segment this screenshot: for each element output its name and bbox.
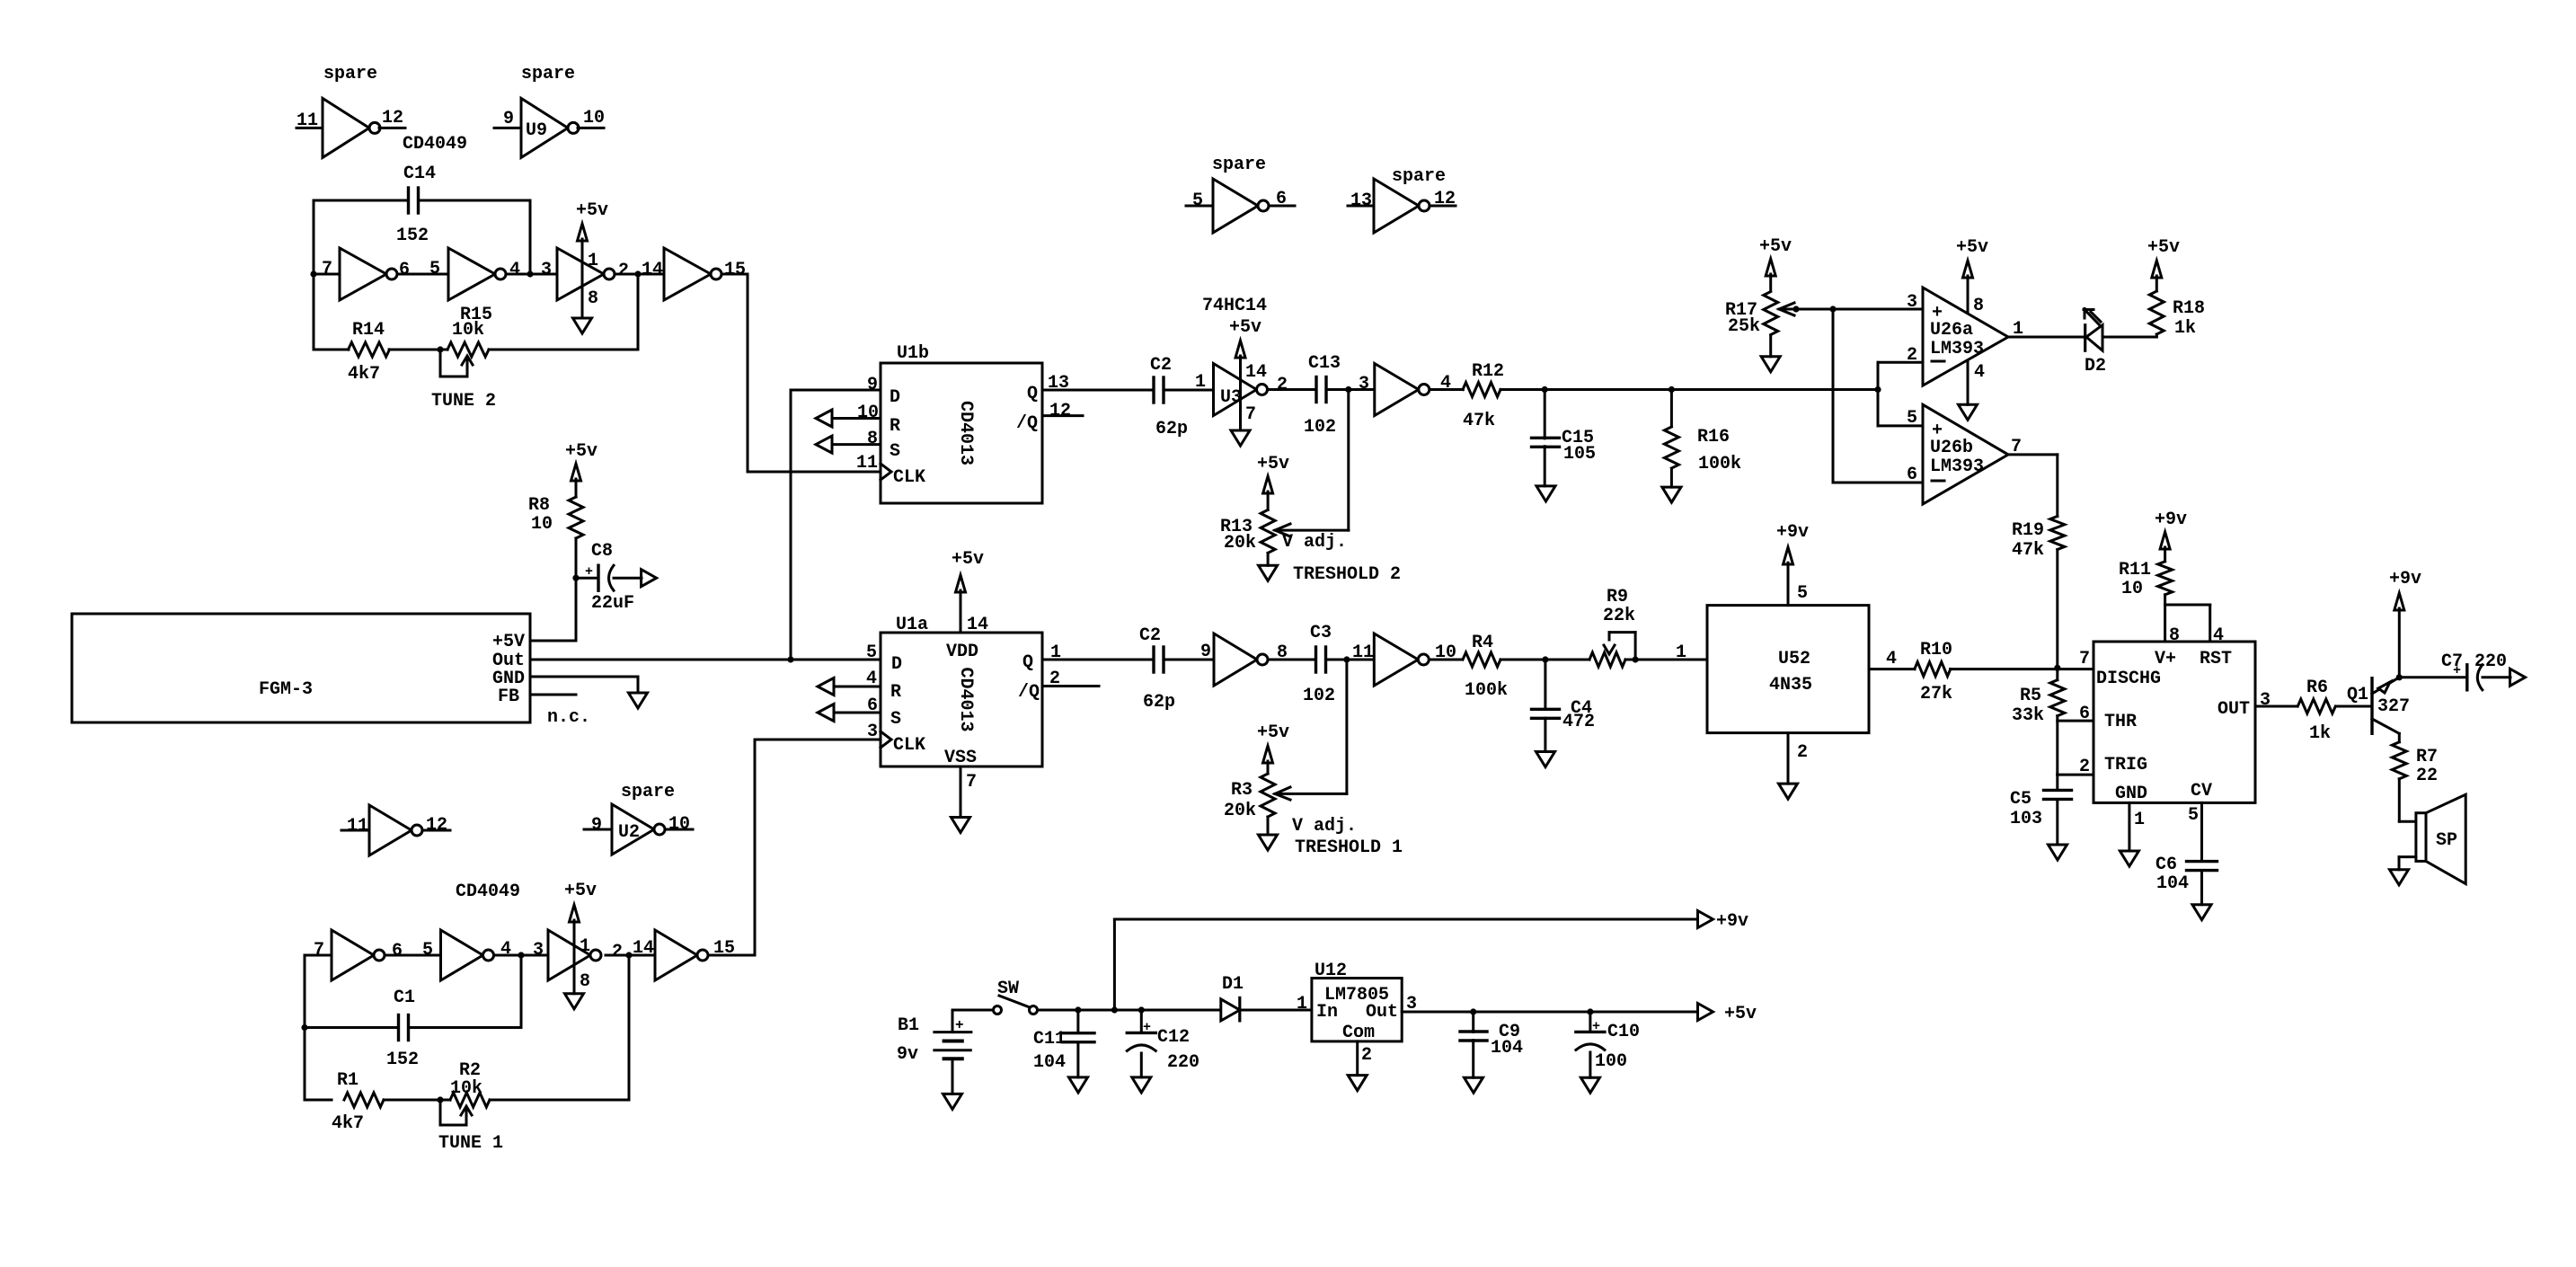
svg-text:+9v: +9v — [1716, 911, 1748, 932]
svg-text:22uF: 22uF — [591, 593, 634, 614]
capacitor C2 62p (channel 1) — [1139, 625, 1175, 713]
svg-text:R6: R6 — [2306, 678, 2328, 698]
wire: C2 to inverter pin 9 — [1164, 642, 1214, 662]
svg-text:1: 1 — [588, 251, 598, 271]
inverter 74HC14 pins 11-10 — [1374, 633, 1456, 686]
wire: U26b output to R19 — [2008, 455, 2058, 517]
svg-text:47k: 47k — [2012, 540, 2044, 561]
clock wedge U1a CLK pin 3 — [867, 722, 891, 748]
ground below C12 — [1132, 1077, 1151, 1093]
capacitor C1 152 — [305, 955, 521, 1070]
svg-text:RST: RST — [2200, 649, 2232, 669]
svg-text:CD4013: CD4013 — [955, 401, 976, 465]
svg-text:R: R — [890, 682, 901, 703]
resistor R19 47k — [2012, 517, 2065, 562]
inverter CD4049 pins 3-2 with power pins 1,8 — [557, 248, 615, 309]
transistor Q1 327 — [2347, 678, 2410, 734]
svg-text:GND: GND — [2115, 784, 2147, 804]
svg-text:10: 10 — [668, 814, 690, 835]
svg-text:R7: R7 — [2416, 747, 2438, 767]
svg-text:47k: 47k — [1463, 411, 1495, 431]
+5v power arrow above U26a — [1956, 237, 1988, 313]
+9v power arrow above U52 pin 5 — [1776, 522, 1809, 606]
svg-text:13: 13 — [1048, 373, 1069, 394]
potentiometer R13 20k TRESHOLD 2 — [1220, 454, 1290, 565]
wire: C3 to inverter pin 11 junction — [1327, 642, 1374, 663]
svg-text:8: 8 — [2169, 625, 2180, 646]
svg-text:SP: SP — [2436, 830, 2457, 851]
svg-text:C3: C3 — [1310, 623, 1332, 643]
svg-text:11: 11 — [856, 453, 878, 474]
label CD4049 (top) — [403, 134, 467, 155]
wire: R7 to speaker — [2399, 820, 2416, 823]
svg-text:2: 2 — [2079, 757, 2090, 777]
svg-text:9: 9 — [867, 375, 878, 395]
svg-text:VDD: VDD — [946, 642, 978, 662]
wire: junction to R13 wiper — [1277, 390, 1349, 531]
wire: pin6 line from wiper node — [1833, 309, 1923, 485]
+9v power arrow above Q1 — [2389, 569, 2421, 680]
svg-text:3: 3 — [533, 940, 544, 961]
svg-text:B1: B1 — [898, 1015, 919, 1036]
svg-text:TUNE 2: TUNE 2 — [431, 391, 496, 412]
svg-text:+: + — [1592, 1019, 1600, 1034]
inverter CD4049 pins 5-4 (bottom) — [422, 930, 511, 980]
ground below C11 — [1069, 1077, 1088, 1093]
wire: U12 Out +5v rail — [1402, 994, 1697, 1015]
resistor R5 33k — [2012, 668, 2065, 726]
ground below C9 — [1465, 1077, 1483, 1093]
svg-text:/Q: /Q — [1018, 682, 1040, 703]
svg-text:TUNE 1: TUNE 1 — [438, 1133, 503, 1154]
svg-text:220: 220 — [1167, 1052, 1199, 1073]
svg-text:1: 1 — [580, 936, 590, 957]
ground below U1a VSS pin 7 — [952, 766, 978, 833]
svg-text:100k: 100k — [1465, 680, 1508, 701]
resistor R8 10 — [528, 441, 598, 578]
svg-text:10: 10 — [857, 403, 879, 423]
svg-text:+5v: +5v — [1229, 317, 1261, 338]
clock wedge U1b CLK pin 11 — [856, 453, 891, 480]
svg-text:+: + — [1143, 1020, 1151, 1035]
svg-text:10: 10 — [2121, 579, 2143, 599]
svg-text:12: 12 — [1049, 401, 1071, 421]
potentiometer R15 10k TUNE 2 — [440, 305, 492, 377]
svg-text:7: 7 — [1245, 404, 1256, 425]
ground below U3 — [1231, 430, 1250, 446]
svg-text:11: 11 — [1352, 642, 1374, 663]
svg-text:spare: spare — [323, 64, 377, 84]
wire: R17 wiper to U26a pin 3 — [1782, 292, 1923, 313]
svg-text:5: 5 — [422, 940, 433, 961]
svg-text:5: 5 — [2188, 805, 2199, 826]
svg-text:25k: 25k — [1728, 316, 1760, 337]
svg-text:62p: 62p — [1143, 692, 1175, 713]
ground below U12 Com pin 2 — [1348, 1041, 1372, 1091]
svg-text:C2: C2 — [1139, 625, 1161, 646]
resistor R10 27k — [1915, 640, 1952, 704]
ground for FGM GND — [629, 693, 648, 708]
svg-text:C5: C5 — [2010, 789, 2032, 810]
wire: speaker bottom to ground — [2399, 857, 2416, 870]
svg-text:62p: 62p — [1155, 419, 1188, 439]
svg-text:+: + — [955, 1017, 964, 1033]
svg-text:C7: C7 — [2441, 651, 2463, 672]
svg-text:+5v: +5v — [576, 200, 608, 221]
svg-text:TRIG: TRIG — [2104, 755, 2147, 775]
speaker SP — [2416, 794, 2465, 883]
svg-text:4: 4 — [1974, 362, 1985, 383]
spare inverter U9 pins 9-10 — [494, 64, 605, 157]
wire: node 6-5 bottom — [385, 954, 441, 957]
svg-text:C1: C1 — [394, 988, 415, 1008]
svg-text:2: 2 — [1277, 375, 1288, 395]
capacitor C3 102 — [1303, 623, 1335, 706]
svg-text:3: 3 — [1359, 374, 1369, 394]
resistor R12 47k — [1463, 361, 1504, 431]
svg-text:U2: U2 — [618, 822, 640, 843]
svg-text:5: 5 — [1192, 190, 1203, 211]
svg-text:In: In — [1316, 1002, 1338, 1023]
svg-text:7: 7 — [322, 259, 332, 279]
svg-text:7: 7 — [966, 772, 977, 793]
svg-text:2: 2 — [612, 942, 623, 962]
svg-text:U1b: U1b — [897, 343, 929, 364]
input arrow U1a R pin 4 — [818, 669, 881, 696]
svg-text:spare: spare — [1392, 166, 1446, 187]
inverter CD4049 pins 7-6 — [322, 248, 410, 300]
wire: U3 output pin 2 — [1268, 375, 1316, 395]
svg-text:104: 104 — [1033, 1052, 1066, 1073]
potentiometer R2 10k TUNE 1 — [440, 1060, 490, 1125]
wire: inverter to C3 — [1268, 659, 1315, 661]
svg-text:14: 14 — [642, 260, 663, 280]
svg-text:CD4049: CD4049 — [403, 134, 467, 155]
svg-text:102: 102 — [1303, 686, 1335, 706]
wire: D2 to R18 — [2102, 336, 2156, 339]
capacitor C11 104 — [1033, 1010, 1094, 1077]
svg-text:DISCHG: DISCHG — [2096, 669, 2161, 689]
capacitor C4 472 — [1532, 660, 1596, 752]
svg-text:C6: C6 — [2156, 855, 2177, 875]
wire: bottom oscillator input node 7 — [301, 940, 332, 1100]
svg-text:9: 9 — [591, 815, 602, 836]
svg-text:6: 6 — [1276, 189, 1287, 209]
svg-text:V+: V+ — [2155, 649, 2176, 669]
ground below C10 — [1580, 1077, 1599, 1093]
ground below speaker — [2390, 870, 2409, 885]
IC U1a CD4013 box — [881, 615, 1042, 768]
svg-text:+5v: +5v — [1257, 454, 1289, 474]
spare inverter 74HC14 pins 5-6 — [1186, 155, 1295, 233]
svg-text:100k: 100k — [1698, 454, 1741, 474]
spare inverter 74HC14 pins 13-12 — [1348, 166, 1456, 233]
op-amp U26a LM393 — [1923, 288, 2023, 385]
label CD4049 (bottom) — [456, 882, 520, 902]
wire: comparator minus input feed — [1874, 345, 1923, 429]
ground below C5 — [2049, 845, 2067, 860]
svg-text:4: 4 — [2213, 625, 2224, 646]
svg-text:152: 152 — [396, 226, 429, 246]
svg-text:22k: 22k — [1603, 606, 1635, 626]
op-amp U26b LM393 — [1923, 404, 2022, 504]
svg-text:LM393: LM393 — [1930, 339, 1984, 359]
inverter CD4049 pins 14-15 buffer (bottom) — [655, 930, 735, 980]
ground stub below U26a pin4 — [1959, 361, 1978, 420]
svg-text:+9v: +9v — [2155, 509, 2187, 530]
svg-text:V adj.: V adj. — [1292, 816, 1357, 837]
svg-text:CLK: CLK — [893, 735, 925, 756]
svg-text:C14: C14 — [403, 164, 436, 184]
svg-text:11: 11 — [297, 111, 318, 131]
IC U52 4N35 box — [1707, 606, 1869, 733]
capacitor C9 104 — [1460, 1012, 1523, 1077]
capacitor C8 22uF polarized — [576, 541, 642, 614]
wire: pin15 output to U1b CLK — [721, 274, 881, 472]
spare inverter CD4049 pins 11-12 — [297, 64, 405, 157]
svg-text:+9v: +9v — [2389, 569, 2421, 589]
svg-text:R8: R8 — [528, 495, 550, 516]
svg-text:3: 3 — [1406, 994, 1417, 1014]
svg-text:C10: C10 — [1607, 1022, 1640, 1042]
svg-text:Q: Q — [1022, 652, 1033, 673]
svg-text:12: 12 — [382, 108, 403, 128]
svg-text:12: 12 — [426, 815, 447, 836]
wire: R2 to feedback vertical bottom — [490, 955, 629, 1100]
svg-text:Q: Q — [1027, 384, 1038, 404]
wire: R11 to pins 8 and 4 — [2165, 605, 2224, 646]
svg-text:R4: R4 — [1472, 633, 1493, 653]
svg-text:6: 6 — [867, 696, 878, 716]
wire: U1a Q pin 1 output — [1042, 642, 1154, 663]
battery B1 9v — [897, 1010, 971, 1094]
svg-text:9v: 9v — [897, 1044, 918, 1065]
label TUNE 1 — [438, 1133, 503, 1154]
LED D2 — [2084, 308, 2106, 377]
svg-text:spare: spare — [521, 64, 575, 84]
svg-text:U26a: U26a — [1930, 320, 1973, 341]
ground below U52 pin 2 — [1779, 733, 1809, 799]
svg-text:R18: R18 — [2173, 298, 2205, 319]
svg-text:+5v: +5v — [1257, 722, 1289, 743]
ground below R13 — [1259, 565, 1278, 580]
svg-text:152: 152 — [386, 1050, 419, 1070]
wire: R4 to R9 junction — [1500, 656, 1589, 662]
wire: top oscillator input node 7 — [310, 270, 340, 350]
svg-text:2: 2 — [1049, 669, 1060, 689]
ground below bottom inverter — [565, 994, 584, 1009]
net arrow after C8 — [642, 570, 657, 587]
wire: U1b /Q pin 12 stub — [1042, 401, 1083, 421]
svg-text:12: 12 — [1434, 189, 1456, 209]
svg-text:U12: U12 — [1315, 961, 1347, 981]
wire: inverter to R4 — [1430, 659, 1462, 661]
ground below C4 — [1536, 752, 1555, 767]
diode D1 — [1221, 974, 1244, 1021]
svg-text:spare: spare — [1212, 155, 1266, 175]
+5v power arrow above inverter — [576, 200, 608, 318]
svg-text:20k: 20k — [1224, 801, 1256, 821]
svg-text:4: 4 — [500, 939, 511, 960]
svg-text:R11: R11 — [2119, 560, 2151, 580]
svg-text:1: 1 — [1297, 994, 1307, 1014]
svg-text:R14: R14 — [352, 320, 385, 341]
svg-text:6: 6 — [2079, 704, 2090, 724]
svg-text:THR: THR — [2104, 712, 2137, 732]
svg-text:D2: D2 — [2085, 356, 2106, 377]
label V adj. TRESHOLD 2 — [1282, 532, 1401, 585]
wire: FGM GND to ground — [530, 677, 638, 693]
svg-text:6: 6 — [1907, 465, 1917, 485]
ground below 555 GND pin 1 — [2120, 802, 2145, 866]
wire: C13 to inverter pin 3 junction — [1327, 374, 1375, 394]
svg-text:5: 5 — [866, 642, 877, 663]
+5v power arrow above U1a VDD pin 14 — [952, 549, 988, 635]
input arrow U1b R pin 10 — [816, 403, 881, 427]
wire: FGM FB stub n.c. — [530, 695, 590, 728]
svg-text:103: 103 — [2010, 809, 2042, 829]
svg-text:74HC14: 74HC14 — [1202, 296, 1267, 316]
svg-text:C12: C12 — [1157, 1027, 1190, 1048]
inverter 74HC14 pins 9-8 — [1214, 633, 1288, 686]
svg-text:D: D — [891, 654, 902, 675]
wire: R9 to U52 pin 1 — [1625, 642, 1707, 663]
svg-text:472: 472 — [1562, 712, 1595, 732]
svg-text:4k7: 4k7 — [332, 1113, 364, 1134]
wire: node 6-5 — [397, 273, 448, 276]
svg-text:R5: R5 — [2020, 686, 2041, 706]
svg-text:8: 8 — [588, 288, 598, 309]
svg-text:5: 5 — [1797, 583, 1808, 604]
spare inverter pins 11-12 (lower) — [341, 805, 450, 855]
inverter CD4049 pins 3-2 with power 1,8 (bottom) — [548, 930, 601, 992]
svg-text:10: 10 — [531, 514, 553, 535]
svg-text:14: 14 — [633, 938, 654, 959]
svg-text:D1: D1 — [1222, 974, 1244, 995]
wire: SW to C11/C12/D1 — [1038, 1006, 1221, 1013]
wire: R15 to feedback vertical — [489, 274, 638, 350]
svg-text:102: 102 — [1304, 417, 1336, 438]
svg-text:1: 1 — [2134, 810, 2145, 830]
svg-text:1: 1 — [1195, 372, 1206, 393]
wire: R12 to comparator input node — [1500, 386, 1878, 393]
svg-text:+5v: +5v — [564, 881, 597, 901]
svg-text:6: 6 — [392, 941, 403, 961]
capacitor C13 102 — [1304, 353, 1341, 438]
svg-text:1: 1 — [1676, 642, 1686, 663]
capacitor C7 220 polarized — [2399, 651, 2510, 690]
svg-text:C8: C8 — [591, 541, 613, 562]
svg-text:14: 14 — [1245, 362, 1267, 383]
inverter CD4049 pins 5-4 — [429, 248, 520, 300]
wire: U1b D pin 9 from Out net — [791, 375, 881, 660]
svg-text:TRESHOLD 1: TRESHOLD 1 — [1295, 837, 1403, 858]
svg-text:CLK: CLK — [893, 467, 925, 488]
svg-text:R1: R1 — [337, 1070, 359, 1091]
svg-text:+5V: +5V — [492, 632, 525, 652]
capacitor C12 220 polarized — [1127, 1010, 1199, 1077]
svg-text:1: 1 — [1050, 642, 1061, 663]
capacitor C2 62p (channel 2) — [1150, 355, 1188, 439]
svg-text:6: 6 — [399, 260, 410, 280]
resistor R11 10 to V+/RST — [2119, 509, 2187, 605]
label V adj. TRESHOLD 1 — [1292, 816, 1403, 858]
resistor R14 4k7 — [314, 320, 390, 385]
svg-text:R9: R9 — [1607, 587, 1628, 607]
svg-text:5: 5 — [1907, 408, 1917, 429]
svg-text:CV: CV — [2191, 781, 2212, 802]
wire: U1b Q pin 13 output — [1042, 373, 1154, 394]
svg-text:U52: U52 — [1778, 649, 1810, 669]
svg-text:14: 14 — [967, 615, 988, 635]
svg-text:U1a: U1a — [896, 615, 928, 635]
svg-text:8: 8 — [580, 971, 590, 992]
ground below R3 — [1259, 835, 1278, 850]
capacitor C10 100 polarized — [1576, 1012, 1640, 1077]
wire: junction to R3 wiper — [1275, 660, 1347, 793]
svg-text:+: + — [585, 564, 593, 580]
wire: node 4-3 junction — [506, 260, 557, 280]
svg-text:220: 220 — [2474, 651, 2507, 672]
wire: R14-R15 junction — [389, 346, 447, 352]
svg-text:2: 2 — [1907, 345, 1917, 366]
input arrow U1b S pin 8 — [816, 429, 881, 453]
svg-text:C13: C13 — [1308, 353, 1341, 374]
svg-text:3: 3 — [1907, 292, 1917, 313]
wire: 555 OUT pin 3 to R6 — [2255, 690, 2297, 711]
wire: DISCHG pin 7 label — [2079, 649, 2090, 669]
capacitor C15 105 — [1532, 390, 1597, 486]
IC U12 LM7805 box — [1312, 961, 1402, 1043]
wire: D1 to U12 In — [1240, 994, 1312, 1014]
wire: R10 to DISCHG node — [1951, 668, 2094, 670]
svg-text:22: 22 — [2416, 766, 2438, 786]
svg-text:2: 2 — [618, 261, 629, 281]
svg-text:4k7: 4k7 — [348, 364, 380, 385]
svg-text:Out: Out — [1366, 1002, 1398, 1023]
wire: U26a output to D2 — [2008, 336, 2085, 339]
svg-text:S: S — [890, 709, 901, 730]
svg-text:9: 9 — [1200, 642, 1211, 662]
wire: C14 top feedback — [314, 200, 530, 274]
ground below R17 — [1761, 357, 1780, 372]
svg-text:R16: R16 — [1697, 427, 1730, 447]
svg-text:20k: 20k — [1224, 533, 1256, 554]
wire: U1a D pin 5 — [866, 642, 877, 663]
svg-text:7: 7 — [314, 940, 324, 961]
capacitor C6 104 on CV pin 5 — [2156, 802, 2217, 904]
resistor R4 100k — [1463, 633, 1508, 701]
ground below inverter — [573, 318, 592, 333]
svg-text:10k: 10k — [450, 1078, 482, 1099]
svg-text:FB: FB — [498, 687, 519, 707]
potentiometer R3 20k TRESHOLD 1 — [1224, 722, 1290, 835]
switch SW — [952, 979, 1038, 1014]
svg-text:4: 4 — [509, 260, 520, 280]
svg-text:+5v: +5v — [952, 549, 984, 570]
svg-text:2: 2 — [1361, 1045, 1372, 1066]
svg-text:Q1: Q1 — [2347, 685, 2368, 705]
inverter CD4049 pins 14-15 buffer — [664, 248, 746, 300]
svg-text:13: 13 — [1350, 190, 1372, 211]
wire: node 2-14 junction — [615, 260, 664, 281]
svg-text:spare: spare — [621, 782, 675, 802]
wire: R6 to Q1 base — [2337, 705, 2372, 708]
wire: R1-R2 junction — [384, 1096, 450, 1103]
svg-text:CD4013: CD4013 — [955, 667, 976, 731]
svg-text:C11: C11 — [1033, 1029, 1066, 1050]
resistor R1 4k7 — [305, 1070, 384, 1134]
